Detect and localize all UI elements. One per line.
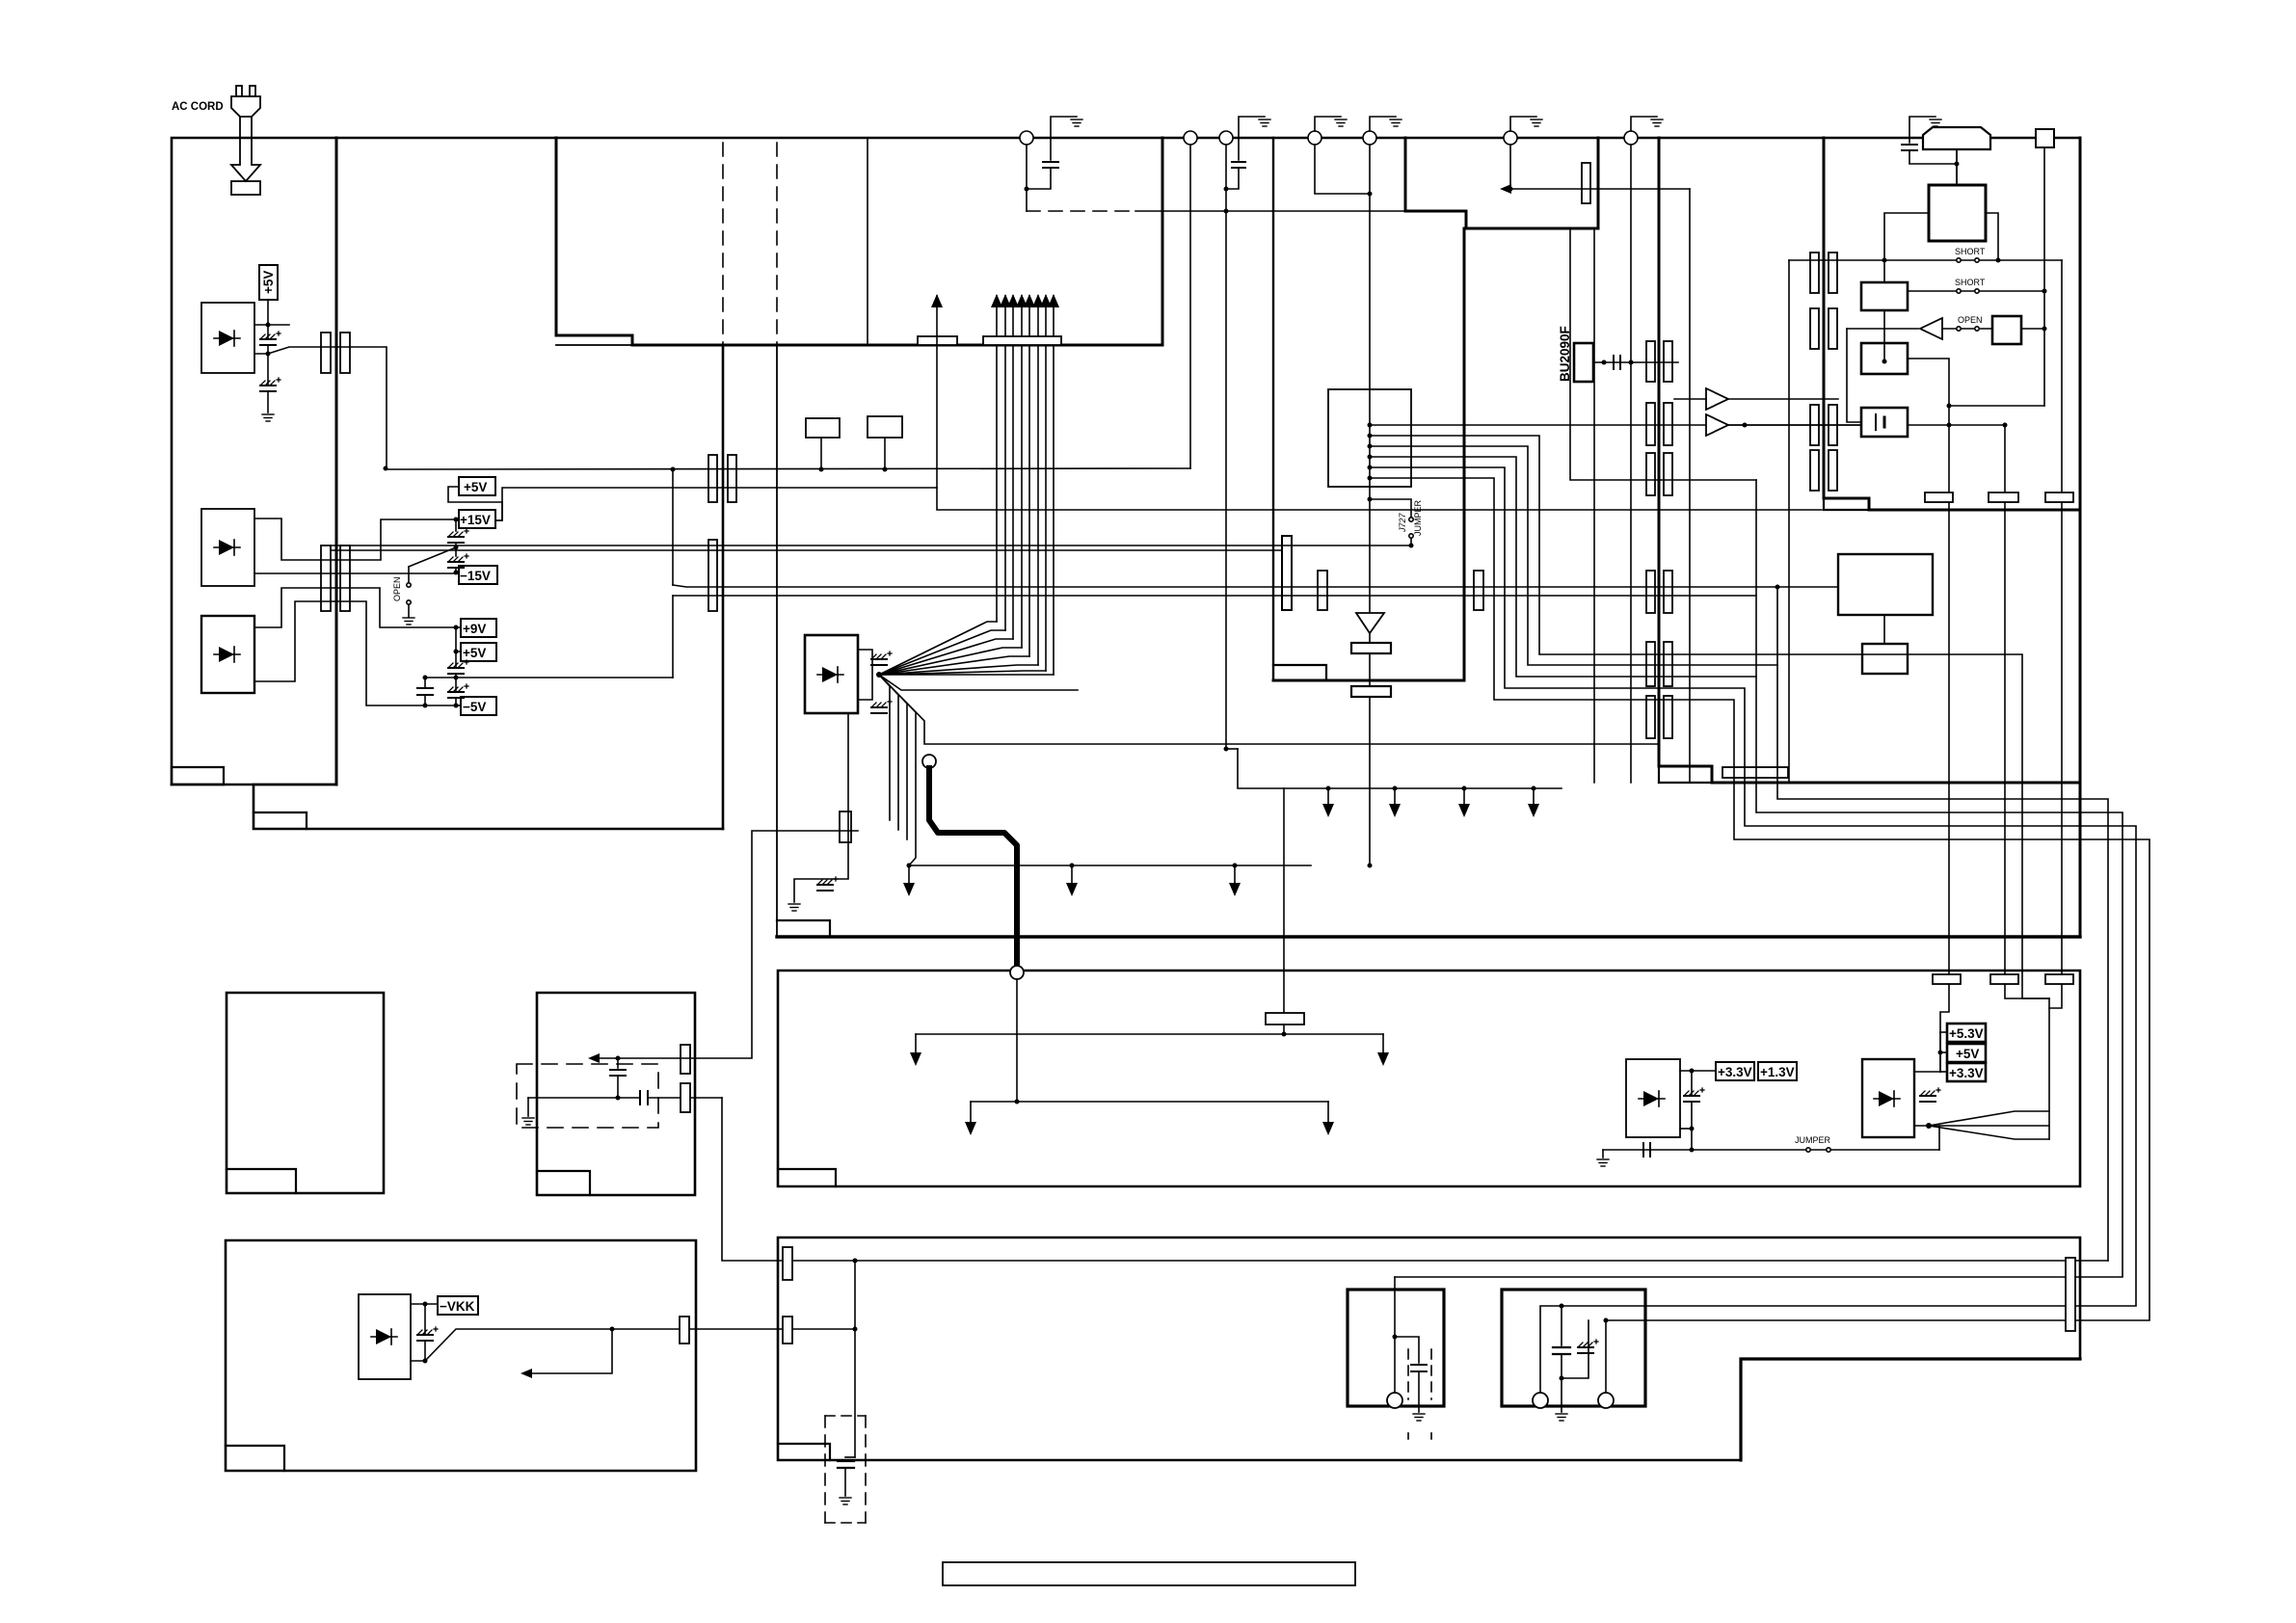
TR bottom connector bar 2 [2045,492,2073,502]
wire x1822 segment [1755,480,1757,595]
svg-text:+9V: +9V [463,622,486,636]
connector bar on wire y196 [1582,163,1590,203]
bridge rectifier BR5 [1862,1059,1914,1137]
wire y1139 through connector [648,1097,722,1099]
sub-board R left edge [1658,138,1661,766]
connector ring circle 3 [1219,131,1233,145]
node dot [1282,1032,1287,1037]
wire -5V row [456,705,461,706]
box on OPEN net [1992,316,2021,344]
connector bar on L2 top left [1266,1013,1304,1024]
cap hatched BRM lower [871,700,892,713]
fan node [876,672,882,678]
wire BR1 lower cap chain [267,354,269,385]
wire BR4 lower out [1680,1128,1692,1130]
svg-text:+5V: +5V [1956,1047,1979,1061]
node dot [454,545,459,550]
ground symbol [1531,120,1542,126]
wire +5V label to BR1 node [267,300,269,325]
wire circle6 down [1509,145,1511,189]
down arrow f [1463,788,1465,810]
connector ring circle 2 [1184,131,1197,145]
SHORT2 net [1861,290,2044,292]
box B3 right wire to corridor [1908,359,1949,974]
connector ring circle 1 [1020,131,1033,145]
wire y703 long to right [425,677,673,678]
node dot [423,704,428,708]
connector ring circle 4 [1308,131,1322,145]
svg-text:−5V: −5V [463,700,486,714]
wire y219 solid part [1135,210,1226,212]
single up arrow into S1 [936,296,938,488]
wire cap chain BR1 [267,325,269,338]
block W name tab [537,1171,590,1195]
cap small series [1613,356,1615,369]
ground symbol [1071,120,1082,126]
wire battery right [1908,424,2005,426]
label box +5V third [461,643,496,661]
box B below A [1862,644,1908,674]
corridor vertical x1654 [1593,228,1595,783]
sub-board TR left edge [1823,138,1826,498]
board M left edge dashed behind S1 [776,143,778,345]
diagonal jumper to OPEN stub [409,547,456,567]
L2 top connector bar 2 [1990,974,2018,984]
wire chain to -15 [455,547,457,556]
board B1 name tab [172,767,224,785]
down arrow e [1394,788,1396,810]
wire through plates down [1369,633,1371,643]
wire x1666 down to circle [1605,1320,1607,1400]
down arrow L2b [1382,1034,1384,1058]
BR5 fan to riser top [1929,1111,2049,1126]
svg-text:+15V: +15V [460,513,491,527]
wire BR3 bottom output to -5V [254,601,461,705]
power square Q on TR [1929,185,1986,241]
AC cord hollow arrow [231,117,260,181]
corridor vertical x1753 [1689,189,1691,783]
node dot [1224,187,1229,192]
jumper J727 stub [1370,499,1411,517]
sq2 circle a [1533,1393,1548,1408]
cap lower stub circle3 [1226,168,1239,189]
board B5 outline [226,1240,696,1471]
connector pair P3 right upper [728,455,736,502]
ground drop left [527,1098,529,1116]
node dot [1508,187,1513,192]
label box +5V second [459,477,495,495]
connector ring circle 7 [1624,131,1638,145]
label box +9V [461,619,496,637]
left arrowhead B5 [521,1369,532,1378]
connector tall C1330 [1282,536,1292,610]
ground left end [1602,1150,1604,1157]
node dot [1560,1304,1564,1309]
top block TB thick outline [1405,138,1598,228]
connector tall P4 [708,540,717,611]
bridge rectifier BR3 [201,616,254,693]
stub x887 to cap [845,1456,855,1458]
plate bar upper [1351,643,1391,653]
ground bracket at circle4 [1315,117,1341,131]
svg-text:SHORT: SHORT [1955,247,1986,256]
node dot [1690,1127,1695,1131]
BR5 fan mid [1929,1125,2049,1127]
ground symbol OPEN stub [403,618,414,625]
cap hatched BR1a [260,332,280,345]
node dot [1224,209,1229,214]
center box CB [1328,389,1411,487]
bracket stubs [1940,1031,1947,1033]
node dot [2042,327,2047,332]
board M bottom edge [777,935,2080,938]
triangle cathode down [1356,613,1384,633]
TR bottom connector bar 3 [1925,492,1953,502]
sq2 ground drop [1561,1378,1562,1412]
sq1 cap lower wire [1418,1371,1420,1412]
node dot [616,1096,621,1101]
wire circle3 long down [1225,145,1227,749]
wire +9 to +5 chain [455,627,457,652]
diode symbol BR2 [219,540,234,555]
wire Q right to SHORT1 [1986,213,1998,260]
shield S1 bottom-left tab inner [556,344,632,346]
svg-text:−VKK: −VKK [440,1299,475,1314]
wire divider inside S1 [867,138,868,345]
cap plates in housing [838,1460,854,1462]
connector ring circle 6 [1504,131,1517,145]
ground symbol [1930,120,1941,126]
board M right edge [2079,138,2082,937]
node dot [1947,423,1952,428]
bold power link wire [929,768,1017,966]
wire arrow feed into W [592,1057,695,1059]
down arrow c [1234,865,1236,889]
diode symbol BRM [822,667,838,682]
battery cell symbol [1875,414,1877,430]
node dot [1996,258,2001,263]
wire from P1 down to distribution [386,347,387,469]
board B6 step thick edge [1741,1359,2080,1460]
node dot [1938,1051,1943,1055]
vertical x887 in B6 [854,1261,856,1457]
wire BR2 bottom output [254,519,459,560]
wire y414 [1674,398,1706,400]
connector C1367 [1318,571,1327,610]
node dot [1604,1318,1609,1323]
wire bar1 down into L2 [1940,984,1949,1072]
wire BR1 top output [254,324,289,326]
sq2 branch to hatch cap [1562,1320,1589,1378]
left arrow on wire y196 [1500,184,1511,194]
SHORT1 vertical down long [2061,260,2063,974]
wire BR2 bottom to -15V [254,572,459,574]
diode symbol BR5 [1879,1091,1894,1106]
CB staircase wire 4 [1370,457,2122,1277]
connector pair P2 right [340,545,350,611]
label bracket vertical [1939,1032,1941,1072]
node dot [1393,786,1398,791]
feed wire sq2 a [1540,1306,1562,1400]
dashed service box in W [517,1064,658,1128]
svg-text:+1.3V: +1.3V [1760,1065,1795,1079]
long wire y487 across B2 to circle2 line [387,468,1190,469]
down arrow L2d [1327,1102,1329,1128]
bridge rectifier BR6 in B5 [359,1294,411,1379]
wire A to B [1883,615,1885,644]
corridor vertical x2080 [2004,425,2006,974]
border square connector a [2036,129,2054,147]
node dot [1743,423,1748,428]
connector column x1892 pairs [1810,253,1837,491]
svg-text:+5.3V: +5.3V [1949,1026,1984,1041]
ground bracket at circle6 [1510,117,1536,131]
wire +5V jog to +15V net [448,487,502,520]
dashed cap housing B6 [824,1416,826,1523]
wire y1311 in B6 long [778,1260,2108,1262]
ground bracket at circle5 [1370,117,1396,131]
wire circle2 down to bus end [1189,145,1191,468]
wire BR6 top out [411,1303,438,1305]
center sub-block CB bottom edge [1273,679,1464,682]
node dot [1015,1100,1020,1104]
node dot [1025,187,1029,192]
diode symbol BR4 [1643,1091,1659,1106]
connector C1529 [1474,571,1483,610]
cap stub to trapezoid stem [1909,150,1957,164]
L2 top connector bar 3 [2045,974,2073,984]
node dot [1955,162,1960,167]
bus of 8 up arrows into S1 [991,294,1059,675]
AC filter trapezoid [1923,127,1990,149]
CB staircase wire 6 [1370,478,2149,1320]
wire bar2 down into L2 [2005,984,2049,998]
wire BR5 right lower [1914,1125,1929,1127]
BR5 fan low [1929,1126,2049,1139]
node dot [1882,359,1887,364]
wire circle7 long down [1630,145,1632,783]
OPEN jumper circles [1957,327,1961,331]
wire BR4 cap chain [1691,1071,1693,1095]
node dot [1560,1376,1564,1381]
label box +5.3V [1947,1024,1986,1042]
connector bar resistor mid [840,811,851,842]
long wire y566 to jumper J727 [332,545,1411,546]
cap hatched BR4 [1684,1088,1704,1102]
AC plug prong right [250,86,255,96]
wire +15 cap chain [455,519,457,531]
bridge rectifier BR4 [1626,1059,1680,1137]
wire +9V feed [254,588,461,627]
node dot [1629,360,1634,365]
sub-board R bottom edge [1659,766,2080,783]
board B2 name tab [254,812,307,829]
cap plates trapezoid cluster [1902,144,1917,146]
node dot [266,323,271,328]
wire TB bottom to y498 distribution [1570,228,1756,480]
cap hatched BRM upper [871,652,892,665]
SHORT2 jumper circles [1957,289,1961,293]
wire x698 lower segment [672,596,674,678]
ground symbol BR1 [262,414,274,421]
connector on W arrow wire [681,1045,690,1074]
wire below circle into L2 [1016,979,1018,1102]
border square a vertical down [2043,147,2045,406]
sq1 circle [1387,1393,1402,1408]
cap between y703 and -5V row [424,678,426,687]
label box -15V [459,566,497,584]
center sub-block CB right edge [1463,228,1466,680]
cap vertical in W [617,1058,619,1068]
CB staircase wire 2 [1370,436,2049,998]
block E name tab [227,1169,296,1193]
node dot [454,650,459,654]
shield block S1 outline [556,138,1162,345]
OPEN net right part [1942,328,2044,330]
ground symbol B6 cap [840,1498,851,1504]
svg-text:OPEN: OPEN [392,576,402,601]
ground symbol sq1 [1413,1414,1425,1421]
B6 left connector C2 [783,1317,792,1344]
TR bottom connector bar 1 [1989,492,2018,502]
thick square SQ2 in B6 [1502,1290,1645,1406]
BR5 fan node [1926,1123,1932,1129]
cap hatched BR6 [417,1327,438,1341]
board L2 outline [778,971,2080,1186]
board B5 name tab [226,1446,284,1471]
node dot [423,1359,428,1364]
stem T2 [884,438,886,469]
title box bottom [943,1562,1355,1585]
node dot [2042,289,2047,294]
diode symbol BR6 [376,1329,391,1344]
sq1 cap branch [1395,1337,1419,1363]
connector column x1721 pairs [1646,341,1672,738]
wires x1799-1844 pass bar redraw [1734,767,1777,778]
B6 right connector vertical [2066,1258,2075,1331]
svg-text:+3.3V: +3.3V [1949,1066,1984,1080]
node dot [853,1327,858,1332]
node dot [1409,544,1414,548]
node dot [853,1259,858,1264]
svg-text:+5V: +5V [464,480,487,494]
cap hatched +15 chain b [448,554,468,568]
wire x1332 down into L2 [1283,788,1285,1013]
buffer triangle left OPEN [1920,318,1942,339]
long wire y506 [495,488,1822,520]
wire corridor down x749 [722,1098,778,1261]
sq2 circle b [1598,1393,1614,1408]
ground bracket at circle1 with cap [1051,117,1077,160]
label box +1.3V [1758,1062,1797,1080]
sq1 cap plates [1411,1364,1427,1366]
long wire y617 [673,596,1756,677]
wire -VKK to B6 [612,1328,855,1330]
long wire y571 second [332,549,1282,551]
svg-text:JUMPER: JUMPER [1413,499,1423,536]
ground symbol [1259,120,1270,126]
cap hatched BR5 [1920,1088,1940,1102]
block E empty bottom-left outline [227,993,384,1193]
wire y1139 in W to ground [528,1097,640,1099]
wire y777 from circle3 line [1226,748,1238,750]
CB staircase wire 5 [1370,467,2136,1306]
riser x2126 in L2 [2048,998,2050,1139]
bridge rectifier BR2 [201,509,254,586]
connector pair P1 right [340,333,350,373]
board B6 name tab [778,1444,830,1460]
SHORT1 net [1789,259,2062,261]
OPEN jumper stub vertical [408,567,410,582]
wire BR1 bottom output through connector [254,347,386,354]
label box -5V [461,697,496,715]
series cap y1193 [1642,1143,1644,1157]
bar connector on S1 bottom bus [983,336,1061,345]
node dot [1070,864,1075,868]
CB output dots [1368,423,1373,428]
wire BU2090F to column [1593,361,1678,363]
dashed wire y219 behind S1 [1027,210,1135,212]
connector pair P1 left [321,333,331,373]
CB staircase wire 3 [1370,446,2108,1261]
label box +3.3V [1716,1062,1754,1080]
ground chain below BRM [794,713,848,902]
board B2 right edge dashed behind S1 [722,143,724,345]
cap plates circle1 [1043,161,1058,163]
svg-text:AC CORD: AC CORD [172,101,224,113]
wire BR6 lower out diagonal [411,1329,612,1361]
svg-text:SHORT: SHORT [1955,278,1986,287]
AC plug prong left [236,86,242,96]
ground jumper wire y1193 [1603,1149,1939,1151]
cap hatched low chain b [448,684,468,698]
node dot [454,518,459,522]
connector on B5 right edge [680,1317,689,1344]
trapezoid stem [1956,149,1958,185]
wire trapezoid stem into Q [1956,149,1958,185]
AC plug body [231,96,260,117]
down arrow g [1533,788,1535,810]
wire y1193 up to BR5 fan [1938,1126,1940,1150]
node dot [1690,1069,1695,1074]
B6 left connector C1 [783,1247,792,1280]
node dot [819,467,824,472]
wire y421 link [1949,405,2044,407]
label box +5V r [1947,1044,1986,1062]
node dot [1947,404,1952,409]
node dot [266,352,271,357]
label box +3.3V r [1947,1063,1986,1081]
SHORT1 jumper circles [1957,258,1961,262]
plate bar lower [1351,686,1391,697]
node dot [1532,786,1536,791]
board B2 right edge solid [722,345,725,829]
ground symbol BRM [788,904,800,911]
node dot [423,676,428,680]
cap hatched low chain a [448,660,468,674]
node dot [907,864,912,868]
wire row y1162 in L2 [971,1101,1328,1103]
node dot [2003,423,2008,428]
node dot [1690,1148,1695,1153]
node dot [616,1056,621,1061]
transformer sub box T1 [806,418,840,438]
node dot [423,1302,428,1307]
node circle bold link into L2 [1010,966,1024,979]
connector pair P3 left upper [708,455,717,502]
series cap y1139 [639,1091,641,1104]
svg-text:J727: J727 [1398,512,1407,533]
